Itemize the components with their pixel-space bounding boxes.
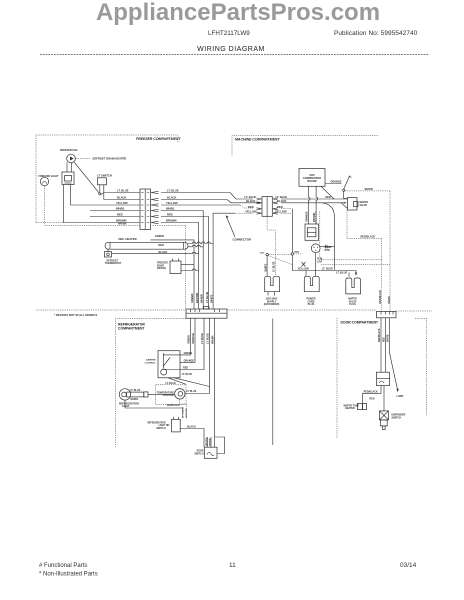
svg-text:YELLOW: YELLOW [166,201,178,205]
svg-text:CONNECTOR: CONNECTOR [233,238,252,242]
refrigerator compartment border [116,319,187,448]
switch to door switch wire [181,426,205,448]
bottom bus wire [292,267,347,275]
svg-text:RED/BLACK: RED/BLACK [364,390,378,393]
drain heater callout [76,157,127,161]
wire row wh/bl left [90,207,140,211]
svg-text:03/14: 03/14 [400,562,417,569]
svg-text:RED: RED [277,205,283,209]
svg-text:FREEZER FAN: FREEZER FAN [60,149,78,152]
svg-text:LT. BLUE: LT. BLUE [245,195,257,199]
bus wire lt.blue [161,193,253,200]
lt switch [98,178,107,200]
svg-text:CONTROL: CONTROL [163,395,175,397]
J2 dashed drop to supply plug [267,216,275,276]
svg-text:SWITCH: SWITCH [156,428,165,430]
sheet title [197,46,265,53]
svg-text:# Functional Parts: # Functional Parts [39,563,87,569]
svg-text:BROWN: BROWN [116,219,127,223]
cold control label [157,391,175,397]
svg-text:SWITCH: SWITCH [157,268,166,270]
dispenser switch S4 [377,372,390,385]
svg-text:BLACK: BLACK [246,199,255,203]
bus wire black (main) [161,200,262,203]
svg-text:DAMPER: DAMPER [146,359,156,362]
refrigerator door switch S3 [194,447,217,458]
svg-text:LFHT2117LW9: LFHT2117LW9 [208,30,250,37]
wh/black wire [125,400,183,408]
door riser wires [381,318,404,398]
cold control wire right [185,390,210,394]
heater wire upper [159,242,214,247]
connector J1 freezer [140,189,151,230]
svg-text:BROWN: BROWN [166,219,177,223]
watermark title [96,0,380,26]
defrost heater [105,242,188,249]
door switch return wire [215,437,225,454]
red riser wire [281,209,292,253]
defrost thermostat wire [112,252,199,254]
svg-text:LT. BLUE: LT. BLUE [276,195,288,199]
svg-text:PTC: PTC [295,251,300,254]
svg-text:COMPARTMENT: COMPARTMENT [118,326,145,330]
svg-text:FREEZER COMPARTMENT: FREEZER COMPARTMENT [136,137,181,141]
svg-text:RED/BLACK: RED/BLACK [379,290,382,304]
power cord plug P2 [304,276,319,306]
ptc node [291,251,302,271]
water valve K1 [348,198,369,211]
freezer door switch [170,259,181,274]
defrost thermostat [105,249,122,265]
svg-text:BLACK: BLACK [277,199,286,203]
plug leads [306,253,357,277]
svg-text:WH/BR: WH/BR [199,294,203,303]
def heater label [119,237,137,241]
svg-text:LT. BLUE: LT. BLUE [336,270,347,274]
svg-text:LT. GREEN: LT. GREEN [183,406,185,418]
svg-text:ORANGE: ORANGE [306,211,309,222]
svg-text:WIRING DIAGRAM: WIRING DIAGRAM [197,46,265,53]
lt.blue wire right of J2 [281,198,348,200]
heater wire lower [159,245,204,254]
svg-text:ORANGE: ORANGE [331,181,342,184]
bus wire white drop [213,213,253,309]
model number [208,30,250,37]
compressor motor [311,244,332,253]
svg-text:BLACK: BLACK [167,196,176,200]
connector callout [226,216,252,242]
svg-text:WH/BL: WH/BL [166,207,175,211]
svg-text:WHITE: WHITE [388,334,390,342]
svg-text:WH/BR: WH/BR [212,335,215,344]
supply node [260,253,306,277]
board diagonal red wire [321,186,334,199]
svg-text:DEFROST DRAIN HEATER: DEFROST DRAIN HEATER [93,157,127,161]
water valve plug P3 [346,278,361,306]
svg-text:AppliancePartsPros.com: AppliancePartsPros.com [96,0,380,26]
cold control dashed box [156,382,186,405]
door riser labels (rotated) [378,290,391,342]
water valve diagonal feed [341,203,348,209]
refrigerator light switch S2 [147,417,180,432]
board lead orange [325,181,342,184]
green wire from J1 [151,235,195,309]
svg-text:LT. BLUE: LT. BLUE [186,390,197,393]
svg-text:LT. BLUE: LT. BLUE [273,261,276,272]
refrigerator light [119,389,148,409]
svg-text:FREEZER: FREEZER [157,263,168,265]
compressor to run vertical [320,245,334,249]
svg-text:Publication No: 5995542740: Publication No: 5995542740 [334,30,418,37]
svg-text:LT. BLUE: LT. BLUE [167,189,179,193]
door compartment border [337,311,432,438]
svg-text:WH/BL: WH/BL [131,398,139,401]
svg-text:WH/BR: WH/BR [210,438,212,446]
svg-text:PLUG: PLUG [308,303,315,306]
svg-text:LIGHT: LIGHT [159,425,166,427]
supply plug P1 [264,276,280,306]
svg-text:YELLOW: YELLOW [298,267,310,271]
light to control wire [148,393,175,395]
wire row red left [90,213,140,217]
svg-text:BOARD: BOARD [307,180,316,183]
svg-text:RED: RED [159,244,164,247]
machine compartment border [232,136,378,157]
svg-text:LT SWITCH: LT SWITCH [97,174,112,178]
svg-text:GREEN: GREEN [184,352,193,355]
svg-text:RED: RED [326,196,331,199]
freezer light label [39,175,59,178]
svg-text:YELLOW: YELLOW [116,201,128,205]
svg-text:RED: RED [183,367,188,370]
svg-text:LT. BLUE: LT. BLUE [322,267,333,271]
svg-text:LT. BLUE: LT. BLUE [130,389,141,392]
svg-text:LT. BLUE: LT. BLUE [207,333,210,344]
damper diagonal wires [168,378,210,387]
relay overload block [305,224,319,240]
footer page number [229,562,236,569]
svg-text:(GROUNDED): (GROUNDED) [264,303,280,306]
svg-text:YELLOW: YELLOW [245,209,257,213]
footer non-illustrated parts [39,572,98,578]
svg-text:BROWN: BROWN [195,293,199,303]
svg-text:RED/BLACK: RED/BLACK [361,236,376,239]
freezer compartment border [36,135,181,223]
door switch pins [206,437,212,447]
lt switch label [97,174,112,178]
svg-text:LT. BLUE: LT. BLUE [201,333,204,344]
white dashed wire [345,187,390,311]
svg-text:RED: RED [370,398,375,401]
svg-text:DOOR: DOOR [157,265,164,267]
svg-text:WHITE: WHITE [365,187,374,191]
door plug P4 [380,420,387,430]
bus wire red drop [161,217,209,309]
connector J2 crimp arrows [257,198,278,214]
svg-text:FREEZER LIGHT: FREEZER LIGHT [39,175,59,178]
svg-text:* DEVICES NOT IN ALL MODELS: * DEVICES NOT IN ALL MODELS [54,313,97,317]
damper control B1 [145,351,180,378]
dashed rotated labels [183,406,188,418]
bus wire wh/bl drop [161,211,203,309]
freezer fan motor [67,154,76,163]
title rule [40,54,429,56]
red/black branch [363,386,382,404]
adc board U1 [299,169,325,187]
svg-text:DOOR COMPARTMENT: DOOR COMPARTMENT [341,320,380,324]
branch curve to run vertical [322,203,334,270]
svg-text:LAMP: LAMP [397,395,404,398]
svg-text:BLACK: BLACK [187,426,196,429]
fan to light-switch diagonal wire [74,162,99,193]
freezer door switch wires [181,265,199,271]
wire labels right of J1 [166,189,179,223]
svg-text:ORANGE: ORANGE [184,360,195,363]
bus wire yellow [161,205,253,208]
svg-text:MTR: MTR [325,249,330,252]
svg-text:LT. BLUE: LT. BLUE [117,189,129,193]
svg-text:11: 11 [229,562,236,569]
svg-text:CAP: CAP [317,260,322,263]
bus wire brown drop [161,223,199,309]
wire row lt.blue left [101,189,140,195]
svg-text:LT. BLUE: LT. BLUE [182,373,193,376]
svg-text:GREEN: GREEN [188,335,191,344]
door connector J4 [377,311,397,317]
svg-text:WH/BR: WH/BR [118,223,127,226]
svg-text:WHITE: WHITE [209,294,213,303]
vertical riser labels (rotated) [190,292,213,303]
svg-text:RED: RED [117,213,123,217]
freezer fan label [60,149,78,152]
freezer light dashed wire [45,186,186,309]
publication number [334,30,418,37]
freezer light [40,177,48,185]
svg-text:LT. BLUE: LT. BLUE [205,292,209,303]
footer functional parts [39,563,87,569]
svg-text:VALVE: VALVE [360,204,368,207]
riser wires below J3 [180,318,215,447]
freezer door switch label [157,263,168,270]
svg-text:RED: RED [167,213,173,217]
yellow stub wire [281,212,292,214]
fan motor body [62,172,74,185]
dashed pair to switch [180,400,187,420]
svg-text:DOOR: DOOR [197,451,204,453]
svg-text:SWITCH: SWITCH [392,416,402,419]
svg-text:RED: RED [248,205,254,209]
svg-text:SWITCH: SWITCH [194,454,203,456]
connector J1 crimp arrows right [151,191,159,223]
svg-text:PLUG: PLUG [349,303,356,306]
svg-text:WHITE: WHITE [264,263,267,271]
svg-text:ORANGE: ORANGE [192,333,195,344]
wire row black left [104,196,140,200]
svg-text:DEF. HEATER: DEF. HEATER [119,237,137,241]
svg-text:WHITE: WHITE [389,296,391,304]
J2 wire labels [245,195,288,213]
svg-text:LT. BLUE: LT. BLUE [166,382,177,385]
svg-text:GREEN: GREEN [155,235,164,238]
footer date [400,562,417,569]
run capacitor dashed leads [316,212,391,265]
wire row brown left label [116,219,127,223]
cold control thermostat [175,389,185,399]
fan lead wires [64,162,141,222]
supply lead rotated labels [264,261,275,272]
svg-text:CONTROL: CONTROL [145,363,156,365]
svg-text:* Non-Illustrated Parts: * Non-Illustrated Parts [39,572,98,578]
svg-text:BROWN: BROWN [206,437,208,446]
svg-text:RED/BLACK: RED/BLACK [378,328,381,342]
fresh food door switch Q1 [343,176,352,199]
board drop wires to relay [306,186,318,224]
riser labels below J3 (rotated) [188,333,215,344]
refrigerator compartment right edge [272,319,274,446]
svg-text:WH/BL: WH/BL [116,207,125,211]
svg-text:115V: 115V [260,253,265,255]
svg-text:YELLOW: YELLOW [275,209,287,213]
water tube heater R1 [344,403,367,410]
svg-text:THERMOSTAT: THERMOSTAT [105,262,122,265]
svg-text:RED: RED [384,337,386,342]
svg-text:REFRIGERATOR: REFRIGERATOR [147,421,166,424]
red/black dashed run [347,210,382,311]
svg-text:GREEN: GREEN [190,294,194,303]
main black wire right of J2 [281,202,347,204]
svg-text:HEATER: HEATER [345,407,355,410]
svg-text:WH/BLACK: WH/BLACK [167,404,180,407]
svg-text:MACHINE COMPARTMENT: MACHINE COMPARTMENT [235,138,280,142]
wire row yellow left label [116,201,128,205]
refrigerator harness connector J3 [186,307,227,319]
compartment divider (dashed) [36,310,376,317]
dispenser micro switch S5 [380,386,406,420]
connector J2 [262,197,272,217]
svg-text:BLACK: BLACK [117,196,126,200]
svg-text:TEMPERATURE: TEMPERATURE [157,391,175,394]
damper wire labels [182,352,195,376]
